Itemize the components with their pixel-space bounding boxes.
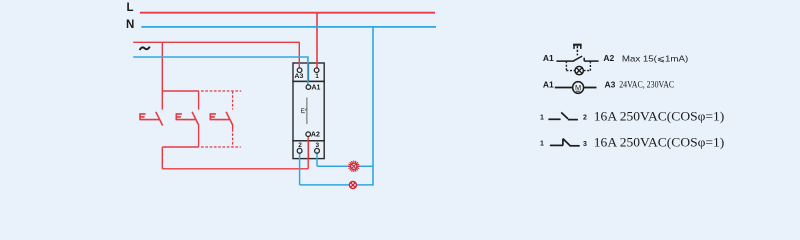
svg-text:A1: A1 (312, 84, 321, 91)
svg-text:A2: A2 (311, 132, 320, 139)
svg-text:1: 1 (315, 73, 319, 80)
svg-text:16A 250VAC(COSφ=1): 16A 250VAC(COSφ=1) (594, 136, 725, 150)
svg-text:A1: A1 (543, 53, 554, 63)
svg-text:A3: A3 (605, 80, 616, 90)
svg-text:1: 1 (540, 114, 544, 121)
svg-text:2: 2 (583, 115, 587, 122)
svg-text:A3: A3 (294, 73, 303, 80)
svg-text:Max 15(⩽1mA): Max 15(⩽1mA) (622, 53, 689, 63)
svg-text:3: 3 (583, 141, 587, 148)
svg-text:2: 2 (298, 142, 302, 149)
svg-text:24VAC, 230VAC: 24VAC, 230VAC (619, 80, 674, 91)
svg-text:1: 1 (540, 141, 544, 148)
svg-text:N: N (126, 19, 134, 31)
svg-text:16A 250VAC(COSφ=1): 16A 250VAC(COSφ=1) (594, 109, 725, 123)
svg-text:A2: A2 (603, 53, 614, 63)
svg-text:L: L (127, 2, 134, 14)
svg-text:A1: A1 (543, 80, 554, 90)
svg-text:M: M (575, 83, 581, 92)
svg-text:3: 3 (316, 142, 320, 149)
